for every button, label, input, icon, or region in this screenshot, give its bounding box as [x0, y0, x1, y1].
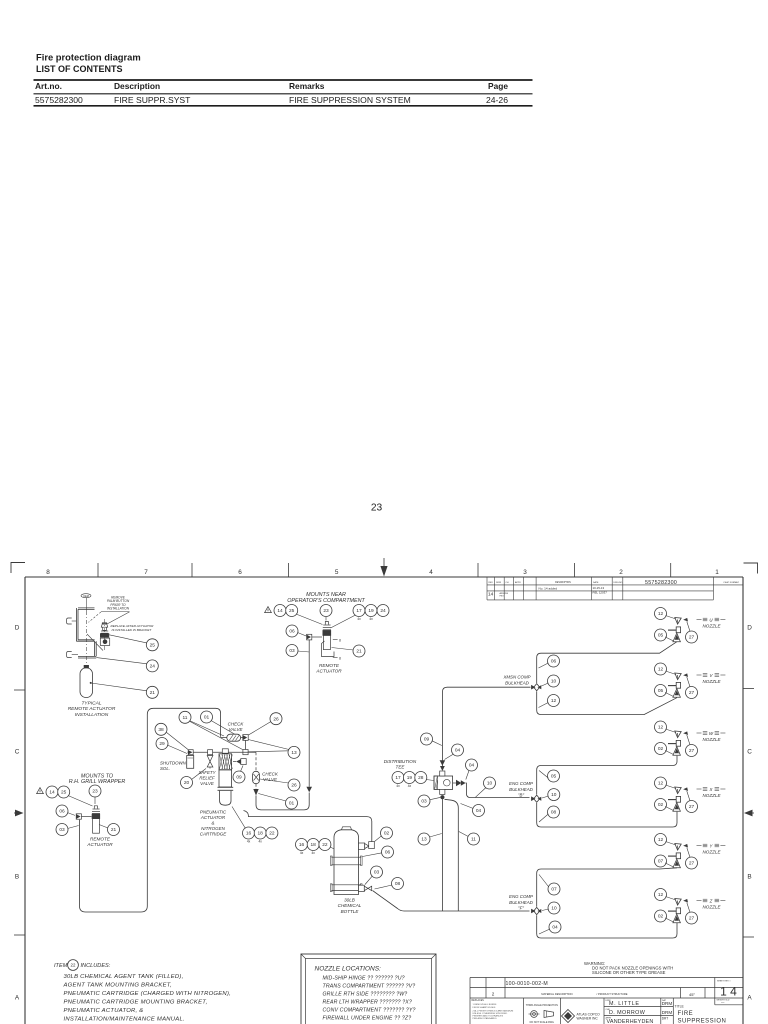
balloon 02 [655, 743, 667, 755]
svg-text:16: 16 [246, 831, 252, 837]
nozzle Y body [675, 844, 681, 851]
svg-text:A: A [747, 995, 752, 1002]
svg-text:06: 06 [59, 809, 65, 815]
balloon 28 [415, 772, 427, 784]
warning triangle [265, 607, 272, 613]
svg-text:03: 03 [374, 870, 380, 876]
leader line [542, 796, 549, 798]
nozzle W body [675, 731, 681, 738]
svg-text:09: 09 [424, 737, 430, 743]
svg-text:2 ALL FINISH SYMBOLS ARE MAXI: 2 ALL FINISH SYMBOLS ARE MAXIMUM [473, 1009, 514, 1012]
title block [470, 978, 743, 1024]
svg-text:BULKHEAD: BULKHEAD [509, 787, 533, 792]
balloon 25 [58, 786, 70, 798]
svg-text:27: 27 [689, 748, 695, 754]
leader line [430, 797, 441, 799]
svg-text:04: 04 [455, 748, 461, 754]
svg-text:ACTUATOR: ACTUATOR [315, 668, 342, 673]
svg-text:12: 12 [551, 698, 557, 704]
leader line [665, 637, 673, 641]
svg-text:Remarks: Remarks [289, 81, 325, 91]
balloon 07 [548, 883, 560, 895]
svg-text:VALVE: VALVE [228, 727, 243, 732]
svg-text:CS&P FORMAT: CS&P FORMAT [723, 581, 739, 584]
nozzle assembly V: balloon 12 [655, 663, 667, 675]
actuator collar [218, 786, 234, 788]
bracket clip upper [67, 618, 72, 624]
wire: dashed discharge line [255, 752, 257, 771]
nozzle X tip (filled) [683, 787, 688, 791]
svg-text:DESCRIPTION: DESCRIPTION [555, 582, 571, 584]
nozzle U pipe fitting [668, 629, 676, 631]
table mid rule [34, 93, 533, 95]
balloon 22 [319, 839, 331, 851]
svg-text:DO NOT SCALE DWG: DO NOT SCALE DWG [530, 1021, 554, 1024]
balloon 01 [201, 711, 213, 723]
svg-text:04: 04 [469, 763, 475, 769]
balloon 05 [655, 629, 667, 641]
nozzle assembly U: balloon 12 [655, 608, 667, 620]
leader line [665, 692, 673, 696]
svg-text:01: 01 [204, 715, 210, 721]
balloon 02 [655, 910, 667, 922]
svg-text:07: 07 [551, 887, 557, 893]
balloon 03 [371, 866, 383, 878]
leader line [363, 853, 383, 857]
column ticks top [97, 563, 99, 577]
svg-text:05: 05 [551, 774, 557, 780]
svg-text:26: 26 [273, 716, 279, 722]
balloon 05 [655, 685, 667, 697]
svg-text:2: 2 [492, 991, 495, 996]
svg-text:W: W [709, 731, 714, 736]
svg-text:21: 21 [150, 690, 156, 696]
svg-text:24: 24 [380, 608, 386, 614]
wire: second trunk down [445, 799, 459, 911]
svg-text:CHECK: CHECK [228, 722, 245, 727]
leader line [192, 769, 207, 780]
svg-text:FIRE SUPPRESSION SYSTEM: FIRE SUPPRESSION SYSTEM [289, 95, 411, 105]
leader line [241, 766, 244, 772]
svg-text:06: 06 [551, 659, 557, 665]
balloon 12 [548, 695, 560, 707]
svg-text:10: 10 [551, 906, 557, 912]
svg-text:23: 23 [323, 608, 329, 614]
nozzle Z body [675, 899, 681, 906]
svg-text:02: 02 [384, 831, 390, 837]
warning triangle [37, 788, 44, 794]
leader line [375, 836, 382, 842]
leader line [687, 903, 690, 914]
balloon 23 [89, 785, 101, 797]
svg-text:&: & [211, 821, 214, 826]
balloon 24 [377, 605, 389, 617]
relief valve fitting [208, 750, 213, 755]
actuator inlet elbow [241, 759, 246, 765]
svg-text:NOZZLE LOCATIONS:: NOZZLE LOCATIONS: [315, 966, 382, 973]
svg-text:TITLE: TITLE [675, 1005, 685, 1009]
balloon 27 [686, 631, 698, 643]
svg-text:12: 12 [658, 667, 664, 673]
leader line [539, 663, 549, 668]
leader line [466, 771, 469, 780]
balloon 06 [286, 625, 298, 637]
svg-text:FIRE SUPPR.SYST: FIRE SUPPR.SYST [114, 95, 191, 105]
balloon 10 [548, 675, 560, 687]
svg-text:BULKHEAD: BULKHEAD [505, 680, 529, 685]
svg-text:4x: 4x [259, 839, 263, 843]
leader line [687, 848, 690, 859]
svg-text:IS INSTALLED IN BRACKET: IS INSTALLED IN BRACKET [112, 628, 153, 632]
svg-text:10-15-13: 10-15-13 [593, 586, 605, 590]
bottle outlet fitting (top) [359, 843, 365, 849]
leader line [258, 794, 286, 802]
svg-text:No. 14 added: No. 14 added [539, 587, 558, 591]
balloon 19 [365, 605, 377, 617]
svg-text:12: 12 [658, 781, 664, 787]
balloon 21 [108, 824, 120, 836]
svg-text:5575282300: 5575282300 [645, 580, 677, 586]
centering arrow top [383, 558, 385, 567]
wire: trunk to xmsn bulkhead [442, 687, 530, 766]
svg-text:R.H. GRILL WRAPPER: R.H. GRILL WRAPPER [69, 779, 126, 785]
bolt callout [333, 657, 338, 659]
svg-text:INCLUDES:: INCLUDES: [81, 963, 111, 969]
wire: loop to main line [256, 793, 309, 810]
wire: bottle discharge to distribution [373, 891, 530, 912]
leader line [539, 771, 548, 779]
svg-text:DRM: DRM [662, 1010, 673, 1015]
leader line [666, 897, 677, 901]
leader line [445, 754, 454, 760]
svg-text:ENG COMP: ENG COMP [509, 781, 533, 786]
nozzle Y pipe fitting [668, 855, 676, 857]
balloon 01 [286, 797, 298, 809]
leader line [375, 885, 393, 889]
nozzle W id marks [697, 732, 726, 735]
leader from 25 [296, 614, 323, 625]
svg-text:THIRD ANGLE PROJECTION: THIRD ANGLE PROJECTION [526, 1004, 558, 1007]
svg-text:07: 07 [658, 859, 664, 865]
svg-text:26: 26 [291, 783, 297, 789]
leader line [666, 785, 677, 789]
svg-text:03: 03 [59, 827, 65, 833]
balloon 11 [179, 711, 191, 723]
svg-text:27: 27 [689, 690, 695, 696]
svg-text:4: 4 [429, 569, 433, 576]
svg-text:4x: 4x [312, 851, 316, 855]
balloon 16 [243, 827, 255, 839]
wire: grill actuator loop pipe [80, 708, 221, 912]
leader line [665, 750, 673, 754]
svg-text:45°: 45° [689, 992, 695, 997]
svg-text:14: 14 [488, 592, 494, 598]
centering arrow right [752, 812, 754, 814]
balloon 16 [296, 839, 308, 851]
nozzle assembly W: balloon 12 [655, 721, 667, 733]
svg-text:20: 20 [184, 780, 190, 786]
svg-text:REL 12037: REL 12037 [593, 591, 608, 595]
balloon 06 [382, 846, 394, 858]
centerline (dashed) [86, 611, 88, 663]
svg-text:29: 29 [159, 741, 165, 747]
leader line [687, 622, 690, 633]
balloon 03 [56, 824, 68, 836]
balloon 27 [686, 801, 698, 813]
svg-text:"B": "B" [518, 793, 524, 798]
nozzle assembly Z: balloon 12 [655, 889, 667, 901]
pipe elbow fitting [76, 814, 81, 819]
nozzle Z id marks [697, 899, 726, 902]
note underline [101, 611, 130, 613]
balloon 13 [288, 746, 300, 758]
svg-text:2: 2 [619, 569, 623, 576]
balloon 04 [466, 759, 478, 771]
balloon 21 [353, 645, 365, 657]
leader from 28 [426, 780, 434, 781]
nozzle U tip (filled) [683, 618, 688, 622]
svg-text:C: C [15, 749, 20, 756]
bottle strap upper [331, 856, 361, 858]
svg-text:NOZZLE: NOZZLE [702, 850, 721, 855]
wire: xmsn branch loop [537, 642, 677, 683]
leader line [190, 722, 243, 750]
balloon 11 [468, 833, 480, 845]
svg-text:CHEMICAL: CHEMICAL [338, 903, 362, 908]
bulkhead fitting (eng comp F) [531, 907, 541, 914]
leader line [332, 648, 354, 651]
svg-text:8: 8 [46, 569, 50, 576]
svg-text:ITEM: ITEM [54, 963, 68, 969]
svg-text:24-26: 24-26 [486, 95, 508, 105]
row ticks left [14, 689, 25, 691]
wire: operator actuator supply pipe [308, 640, 310, 787]
nozzle W tip (filled) [683, 731, 688, 735]
nozzle W pipe fitting [668, 743, 676, 745]
leader line [542, 683, 549, 686]
svg-text:11: 11 [471, 837, 476, 843]
balloon 23 [320, 605, 332, 617]
balloon 25 [146, 639, 158, 651]
leader from 23 [94, 797, 96, 804]
wire: fitting to actuator [82, 816, 92, 818]
balloon 13 [418, 833, 430, 845]
balloon 14 [46, 786, 58, 798]
leader line [542, 909, 549, 911]
svg-text:DATE: DATE [593, 581, 599, 584]
centerline [86, 598, 88, 611]
svg-text:SOL.: SOL. [160, 766, 170, 771]
svg-text:REMOTE ACTUATOR: REMOTE ACTUATOR [68, 706, 116, 712]
balloon 27 [686, 745, 698, 757]
svg-text:02: 02 [658, 802, 664, 808]
nozzle X body [675, 787, 681, 794]
leader line [298, 633, 308, 637]
leader from 16 [232, 807, 246, 829]
svg-text:FINISHES AND TOLERANCES: FINISHES AND TOLERANCES [473, 1015, 504, 1018]
svg-text:FIRE: FIRE [678, 1011, 694, 1017]
chemical bottle body [334, 830, 359, 895]
svg-text:30LB CHEMICAL AGENT TANK (FILL: 30LB CHEMICAL AGENT TANK (FILLED), [64, 974, 184, 980]
svg-text:SHEET REV #: SHEET REV # [717, 981, 731, 983]
leader line [539, 814, 548, 822]
svg-text:18: 18 [258, 831, 264, 837]
svg-text:SUPPRESSION: SUPPRESSION [678, 1019, 727, 1024]
balloon 02 [655, 799, 667, 811]
svg-text:MATERIAL DESCRIPTION: MATERIAL DESCRIPTION [541, 992, 572, 996]
leader line [248, 722, 271, 736]
balloon 08 [392, 878, 404, 890]
leader line [539, 929, 550, 934]
svg-text:A: A [15, 995, 20, 1002]
svg-text:08: 08 [395, 881, 401, 887]
svg-text:10: 10 [487, 781, 493, 787]
balloon 17 [353, 605, 365, 617]
svg-text:25: 25 [289, 608, 295, 614]
svg-text:OEM: OEM [83, 594, 89, 598]
balloon 19 [403, 772, 415, 784]
svg-text:D: D [15, 625, 20, 632]
svg-text:11: 11 [183, 715, 188, 721]
svg-text:PNEUMATIC ACTUATOR, &: PNEUMATIC ACTUATOR, & [64, 1008, 144, 1014]
pipe elbow fitting [307, 634, 312, 640]
flow arrow [306, 787, 312, 793]
svg-text:ARROWS: ARROWS [500, 592, 509, 595]
balloon 22 [266, 827, 278, 839]
balloon 07 [655, 855, 667, 867]
svg-text:REV: REV [489, 582, 494, 584]
flow arrow [440, 760, 446, 766]
svg-text:REMOTE: REMOTE [319, 663, 340, 668]
svg-text:17: 17 [395, 775, 401, 781]
bottle valve cap [342, 827, 352, 830]
svg-text:APPR: APPR [515, 581, 521, 584]
bulkhead fitting (xmsn) [531, 684, 541, 691]
balloon 24 [146, 660, 158, 672]
centerline actuator (dashed) [103, 619, 105, 652]
svg-text:INSTALLATION/MAINTENANCE MANUA: INSTALLATION/MAINTENANCE MANUAL. [64, 1017, 185, 1023]
svg-text:DRW: DRW [496, 582, 501, 584]
nozzle X pipe fitting [668, 799, 676, 801]
nozzle Y id marks [697, 844, 726, 847]
svg-text:03: 03 [421, 799, 427, 805]
leader line [211, 721, 237, 736]
svg-text:ACTUATOR: ACTUATOR [86, 842, 113, 847]
svg-text:3: 3 [523, 569, 527, 576]
balloon 27 [686, 912, 698, 924]
check valve (horizontal) [227, 734, 241, 741]
bulkhead fitting (eng comp B) [531, 795, 541, 802]
svg-text:38: 38 [158, 727, 164, 733]
svg-text:27: 27 [689, 804, 695, 810]
svg-text:VANDERHEYDEN: VANDERHEYDEN [607, 1019, 654, 1024]
svg-text:Fire protection diagram: Fire protection diagram [36, 52, 141, 63]
svg-text:M. LITTLE: M. LITTLE [609, 1001, 640, 1007]
svg-text:DRM: DRM [662, 1001, 673, 1006]
table top rule [34, 79, 533, 81]
svg-text:REPLACES: REPLACES [472, 999, 485, 1002]
actuator lower body [220, 791, 231, 805]
svg-text:GRILLE RTH SIDE ???????? ?W?: GRILLE RTH SIDE ???????? ?W? [323, 992, 408, 998]
svg-text:5575282300: 5575282300 [35, 95, 83, 105]
svg-text:23: 23 [92, 789, 98, 795]
leader from 22 [330, 847, 341, 852]
svg-text:27: 27 [689, 861, 695, 867]
nozzle Y outlet cone [673, 859, 681, 868]
nozzle V outlet cone [673, 689, 681, 698]
bottle strap lower [331, 884, 361, 886]
balloon 21 [146, 686, 158, 698]
remote actuator (operator) [325, 622, 328, 625]
svg-text:4x: 4x [408, 784, 412, 788]
balloon 18 [307, 839, 319, 851]
svg-text:25: 25 [61, 790, 67, 796]
svg-text:27: 27 [689, 635, 695, 641]
svg-text:Z: Z [709, 898, 713, 903]
tee right port arrows [453, 782, 456, 784]
balloon 06 [548, 655, 560, 667]
bottle drain fitting (bottom) [359, 885, 365, 891]
leader line [666, 729, 677, 733]
nozzle Z outlet cone [673, 914, 681, 923]
svg-text:16: 16 [299, 842, 305, 848]
balloon 04 [452, 744, 464, 756]
leader from 23 [325, 617, 327, 621]
svg-text:30LB: 30LB [344, 898, 355, 903]
node OEM [81, 594, 91, 598]
svg-text:08: 08 [551, 810, 557, 816]
svg-text:23: 23 [371, 503, 383, 514]
leader line [665, 806, 673, 810]
wire: dashed [255, 784, 257, 789]
svg-text:NITROGEN: NITROGEN [201, 826, 226, 831]
wire: fitting to actuator [312, 636, 322, 638]
svg-text:12: 12 [658, 725, 664, 731]
sheet border [25, 576, 743, 578]
svg-text:24: 24 [150, 664, 156, 670]
svg-text:DRT: DRT [662, 1017, 669, 1021]
svg-text:V: V [710, 673, 714, 678]
tee bottom port [440, 789, 445, 794]
actuator mounting bracket [322, 641, 335, 657]
svg-text:INSTALLATION: INSTALLATION [107, 606, 130, 610]
svg-text:NOZZLE: NOZZLE [702, 679, 721, 684]
svg-text:Description: Description [114, 81, 160, 91]
svg-text:/ PRODUCT STRUCTURE: / PRODUCT STRUCTURE [597, 992, 628, 996]
wire: manifold pipe [188, 751, 257, 753]
svg-text:REMOTE: REMOTE [90, 837, 111, 842]
svg-text:1 4: 1 4 [720, 985, 737, 999]
leader line [665, 863, 673, 867]
svg-text:D. MORROW: D. MORROW [609, 1010, 646, 1016]
balloon 27 [686, 687, 698, 699]
balloon 10 [548, 789, 560, 801]
svg-text:13: 13 [291, 750, 297, 756]
svg-text:RELIEF: RELIEF [199, 776, 215, 781]
svg-text:25: 25 [150, 642, 156, 648]
nozzle Z pipe fitting [668, 910, 676, 912]
wire: branch to eng comp bulkhead B [466, 783, 530, 798]
balloon 26 [270, 713, 282, 725]
leader line [68, 826, 79, 829]
table bottom rule [34, 105, 533, 107]
svg-text:PNEUMATIC CARTRIDGE MOUNTING B: PNEUMATIC CARTRIDGE MOUNTING BRACKET, [64, 1000, 208, 1006]
balloon 18 [254, 827, 266, 839]
nozzle U outlet cone [673, 633, 681, 642]
shutdown solenoid [187, 756, 194, 769]
svg-text:XMSN COMP: XMSN COMP [502, 675, 530, 680]
svg-text:"F": "F" [518, 906, 524, 911]
